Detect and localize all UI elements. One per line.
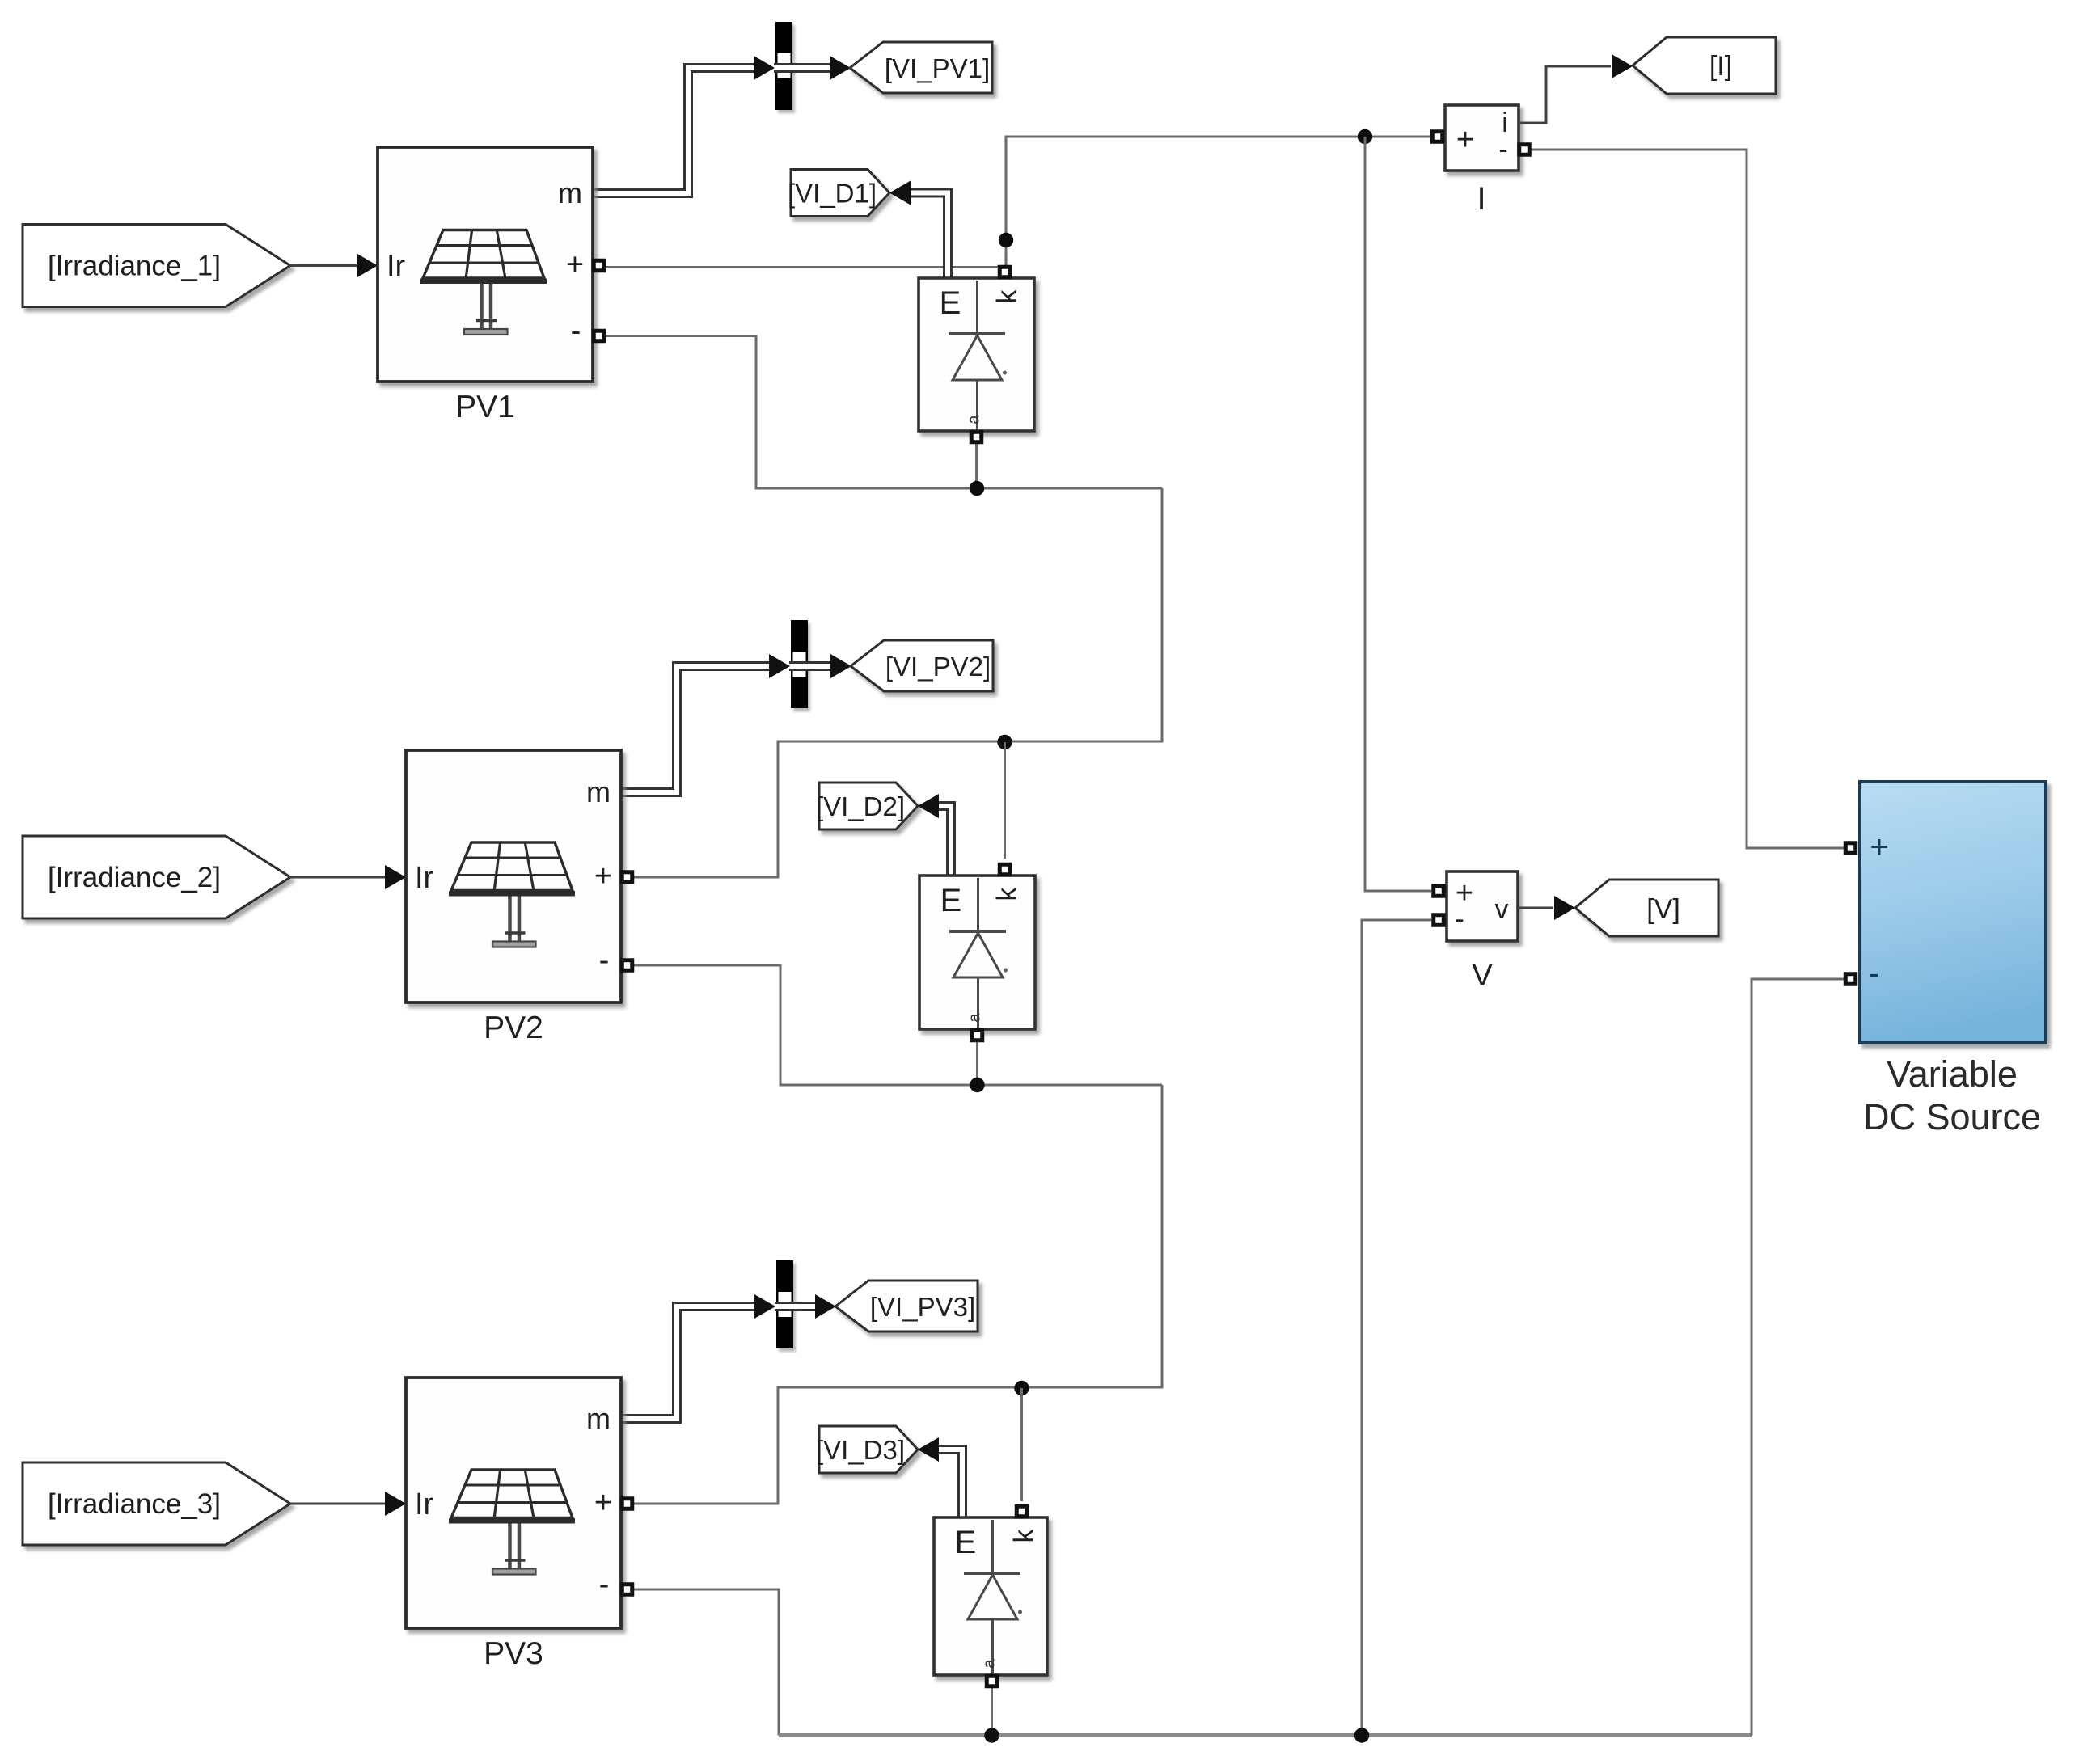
I - port — [1517, 142, 1532, 157]
svg-text:k: k — [1009, 1529, 1040, 1543]
wire Irradiance_2 to PV2.Ir — [290, 876, 387, 879]
bus wire Mux2 to goto tag — [808, 661, 832, 671]
svg-text:Ir: Ir — [415, 861, 434, 895]
Variable DC Source block — [1860, 782, 2046, 1043]
arrow into Mux2 — [769, 654, 790, 678]
svg-text:[I]: [I] — [1709, 51, 1732, 82]
DC source + port — [1844, 841, 1858, 855]
wire D2.anode — [976, 1041, 978, 1085]
PV2 - port — [620, 958, 635, 973]
svg-text:[VI_D3]: [VI_D3] — [816, 1435, 905, 1465]
arrow into Mux1 — [754, 56, 775, 80]
PV array block PV2 — [406, 750, 621, 1002]
svg-text:+: + — [566, 248, 584, 282]
PV array block PV1 — [378, 147, 593, 382]
arrow into goto [VI_PV3] — [815, 1294, 836, 1319]
wire Irradiance_3 to PV3.Ir — [290, 1503, 387, 1505]
svg-text:-: - — [571, 314, 581, 348]
PV3 + port — [620, 1496, 635, 1511]
bus wire through Mux2 — [789, 661, 808, 671]
svg-text:a: a — [966, 1013, 984, 1023]
mux Mux3 — [776, 1260, 793, 1348]
mux Mux2 — [791, 620, 808, 708]
mux Mux1 — [775, 22, 792, 110]
svg-text:Ir: Ir — [415, 1488, 434, 1521]
diode block D2 — [919, 876, 1035, 1029]
svg-text:DC Source: DC Source — [1863, 1096, 2041, 1137]
svg-text:PV3: PV3 — [484, 1636, 543, 1671]
wire PV1.+ to D1.k — [605, 266, 999, 268]
diode block D1 — [919, 278, 1034, 431]
arrow into goto [VI_D2] — [918, 794, 939, 818]
svg-text:+: + — [594, 1486, 612, 1520]
svg-text:-: - — [1455, 904, 1464, 935]
goto tag [VI_PV1] — [850, 42, 992, 93]
svg-text:[VI_D1]: [VI_D1] — [788, 179, 877, 209]
svg-text:+: + — [1456, 123, 1474, 157]
svg-text:Variable: Variable — [1887, 1053, 2018, 1095]
svg-text:a: a — [966, 415, 983, 424]
svg-text:Ir: Ir — [387, 250, 406, 284]
svg-text:v: v — [1495, 894, 1509, 925]
bus wire D2.m to goto [VI_D2] — [939, 806, 951, 877]
svg-text:[VI_PV3]: [VI_PV3] — [870, 1292, 975, 1322]
wire node C down to PV3.+ level — [633, 1085, 1162, 1504]
goto tag [VI_PV2] — [851, 640, 993, 691]
svg-text:[V]: [V] — [1646, 894, 1680, 925]
junction V- on bottom rail — [1354, 1728, 1369, 1742]
bus wire PV1.m to Mux1 — [593, 68, 758, 193]
V + port — [1431, 884, 1446, 898]
svg-text:m: m — [586, 775, 611, 808]
wire node A down to V.+ — [1365, 137, 1431, 891]
PV3 - port — [620, 1582, 635, 1597]
goto tag [VI_PV3] — [835, 1281, 978, 1331]
svg-text:m: m — [586, 1402, 611, 1435]
voltage measurement block V — [1447, 871, 1518, 941]
svg-text:-: - — [599, 943, 610, 977]
diode block D3 — [934, 1517, 1047, 1675]
D2 diode symbol — [977, 878, 979, 930]
svg-text:m: m — [558, 176, 582, 209]
arrow into goto [VI_D1] — [889, 181, 911, 205]
svg-text:[Irradiance_1]: [Irradiance_1] — [48, 251, 221, 282]
PV1 solar panel icon — [423, 230, 544, 279]
wire DC source - to bottom rail — [1752, 979, 1844, 1736]
D2 anode port — [970, 1028, 985, 1043]
from tag [Irradiance_2] — [23, 836, 290, 918]
PV3 solar panel icon — [451, 1470, 573, 1518]
svg-text:[VI_PV1]: [VI_PV1] — [885, 53, 990, 83]
wire PV1.- to node B — [605, 336, 1162, 489]
D3 diode symbol — [991, 1520, 994, 1572]
svg-text:k: k — [992, 887, 1023, 901]
wire D3.anode — [991, 1686, 993, 1736]
svg-text:I: I — [1477, 181, 1485, 217]
svg-text:E: E — [940, 883, 962, 918]
junction node C above D3 — [1014, 1381, 1029, 1395]
svg-text:PV1: PV1 — [455, 390, 515, 424]
svg-text:-: - — [599, 1568, 610, 1602]
bus wire Mux1 to goto tag — [792, 63, 831, 73]
junction node B above D2 — [997, 735, 1012, 749]
goto tag [VI_D2] — [819, 783, 918, 829]
from tag [Irradiance_3] — [23, 1462, 290, 1545]
arrow into goto [VI_D3] — [918, 1437, 939, 1462]
arrow into goto [VI_PV2] — [830, 654, 851, 678]
arrow into Mux3 — [754, 1294, 775, 1319]
D3 anode port — [985, 1674, 999, 1689]
DC source - port — [1844, 972, 1858, 986]
D1 diode symbol — [976, 281, 978, 332]
PV2 + port — [620, 870, 635, 884]
bus wire through Mux1 — [774, 63, 792, 73]
svg-text:+: + — [594, 859, 612, 893]
svg-text:a: a — [981, 1659, 999, 1669]
PV array block PV3 — [406, 1378, 621, 1628]
svg-text:E: E — [955, 1525, 977, 1560]
svg-text:E: E — [940, 285, 961, 321]
arrow into goto [VI_PV1] — [830, 56, 851, 80]
wire D1.anode — [975, 443, 978, 488]
svg-text:[VI_PV2]: [VI_PV2] — [885, 652, 991, 682]
junction D2 anode on node C — [970, 1078, 984, 1092]
current measurement block I — [1445, 105, 1519, 171]
goto tag [V] — [1575, 880, 1718, 936]
svg-text:[Irradiance_2]: [Irradiance_2] — [48, 862, 221, 893]
bus wire PV3.m to Mux3 — [621, 1306, 758, 1419]
junction node A above D1 — [999, 233, 1013, 247]
goto tag [I] — [1633, 37, 1776, 94]
wire node B down to PV2.+ level — [633, 488, 1162, 877]
bus wire PV2.m to Mux2 — [621, 666, 772, 792]
svg-text:V: V — [1472, 959, 1493, 993]
bus wire D3.m to goto [VI_D3] — [939, 1450, 962, 1519]
wire I.- to DC source + — [1531, 150, 1844, 848]
wire PV2.- to node C — [633, 965, 1162, 1085]
svg-text:[VI_D2]: [VI_D2] — [816, 791, 905, 821]
PV1 + port — [592, 259, 606, 273]
wire PV3.- down to bottom rail — [633, 1589, 779, 1736]
wire V.v to goto [V] — [1518, 907, 1553, 909]
svg-text:[Irradiance_3]: [Irradiance_3] — [48, 1488, 221, 1520]
D1 anode port — [970, 430, 984, 445]
wire I.i to goto [I] — [1519, 66, 1611, 123]
junction node A to V riser — [1358, 129, 1372, 144]
svg-text:-: - — [1868, 956, 1878, 991]
PV2 solar panel icon — [451, 842, 573, 891]
wire node C to D3.k — [1020, 1388, 1023, 1501]
goto tag [VI_D3] — [819, 1426, 918, 1473]
svg-text:k: k — [992, 289, 1023, 304]
PV1 - port — [592, 329, 606, 344]
goto tag [VI_D1] — [791, 170, 889, 217]
D2 k port — [998, 863, 1012, 877]
svg-text:-: - — [1498, 134, 1507, 165]
svg-text:+: + — [1870, 829, 1888, 865]
D1 k port — [998, 265, 1012, 280]
junction D1 anode on node B — [970, 481, 984, 496]
wire Irradiance_1 to PV1.Ir — [290, 264, 358, 267]
wire D1.k riser to I.+ node — [1006, 137, 1431, 266]
bus wire D1.m to goto [VI_D1] — [911, 193, 948, 281]
wire V.- down to bottom rail — [1362, 920, 1431, 1736]
wire node B to D2.k — [1004, 742, 1006, 859]
bus wire through Mux3 — [775, 1302, 793, 1311]
svg-text:PV2: PV2 — [484, 1011, 543, 1045]
D3 k port — [1015, 1504, 1029, 1519]
I + port — [1430, 129, 1445, 144]
from tag [Irradiance_1] — [23, 225, 290, 307]
bus wire Mux3 to goto tag — [793, 1302, 817, 1311]
junction D3 anode on bottom rail — [984, 1728, 999, 1742]
V - port — [1431, 913, 1446, 927]
bottom rail wire — [779, 1733, 1752, 1737]
